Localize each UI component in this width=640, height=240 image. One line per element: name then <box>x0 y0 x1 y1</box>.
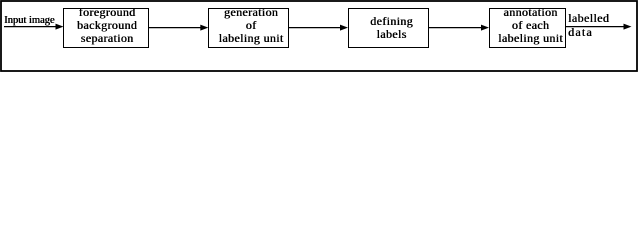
wire box2 to box3 <box>289 27 342 29</box>
box annotation of each labeling unit <box>489 8 566 48</box>
box generation of labeling unit <box>208 8 289 48</box>
node labelled data <box>568 12 609 24</box>
wire input arrow <box>4 26 57 28</box>
wire output arrow <box>566 26 626 28</box>
node Input image <box>4 15 54 27</box>
wire box3 to box4 <box>429 27 483 29</box>
box defining labels <box>348 8 429 48</box>
outer frame <box>0 0 640 74</box>
wire box1 to box2 <box>149 27 203 29</box>
box foreground/background separation <box>63 8 149 48</box>
